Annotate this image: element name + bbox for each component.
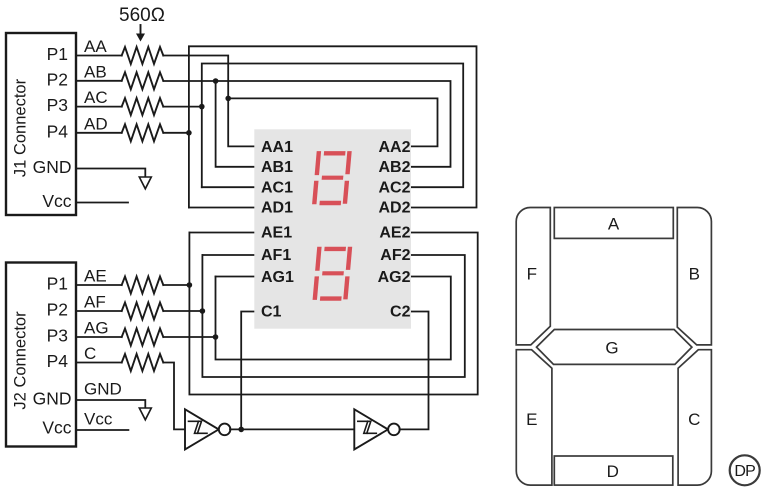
wire J2.P1 stub	[76, 284, 122, 286]
svg-text:GND: GND	[33, 157, 72, 177]
svg-text:P4: P4	[47, 121, 69, 141]
inverter U1 (Schmitt)	[185, 409, 219, 449]
svg-text:P4: P4	[47, 351, 69, 371]
segment F outline	[516, 208, 550, 345]
wire net AE	[163, 284, 189, 286]
wire J2.GND	[76, 400, 145, 408]
svg-text:F: F	[527, 265, 537, 284]
resistor R6 (AF)	[122, 303, 164, 320]
junction net AA	[225, 96, 231, 102]
svg-text:AC: AC	[84, 88, 108, 107]
junction net AC	[199, 104, 205, 110]
wire net C to inverter input	[163, 363, 185, 430]
svg-text:C: C	[688, 410, 700, 429]
wire net AG riser and wrap to AG2	[216, 277, 451, 360]
junction dots	[186, 78, 244, 432]
wire net AF riser and wrap to AF2	[202, 255, 464, 377]
seven segment digit DS1	[312, 151, 352, 205]
svg-text:AG1: AG1	[261, 269, 294, 286]
svg-text:P1: P1	[47, 274, 68, 294]
wire J2.P2 stub	[76, 310, 122, 312]
display module body	[254, 129, 411, 328]
svg-text:P3: P3	[47, 95, 68, 115]
ground symbol J2	[139, 408, 151, 420]
wire J1.P1 stub	[76, 55, 122, 57]
wire J1.P4 stub	[76, 132, 122, 134]
segment A outline	[554, 208, 673, 239]
wire net AB branch to AB1	[216, 81, 255, 167]
svg-text:AE: AE	[84, 267, 107, 286]
wire net AB	[163, 81, 450, 167]
wire J2.Vcc	[76, 429, 128, 431]
svg-text:E: E	[526, 410, 537, 429]
junction net AD	[186, 130, 192, 136]
J1 connector box	[6, 33, 76, 215]
svg-text:J2 Connector: J2 Connector	[12, 311, 30, 410]
svg-text:B: B	[689, 265, 700, 284]
svg-text:GND: GND	[33, 389, 72, 409]
big 7-segment legend	[516, 208, 760, 486]
seven segment digit DS2	[312, 247, 352, 301]
svg-text:AB: AB	[84, 62, 107, 81]
segment G outline	[537, 330, 692, 365]
svg-text:AB2: AB2	[378, 159, 410, 176]
svg-text:AD2: AD2	[378, 200, 410, 217]
wire net AA wrap to AA2	[228, 98, 437, 146]
inverter U2 (Schmitt)	[354, 409, 388, 449]
svg-text:AC2: AC2	[378, 180, 410, 197]
svg-text:C1: C1	[261, 304, 282, 321]
resistor R1 (AA)	[122, 47, 164, 64]
svg-text:DP: DP	[734, 463, 755, 480]
resistor R8 (C)	[122, 354, 164, 371]
wire net AC	[163, 106, 202, 108]
wire net AF stub to AF1	[202, 254, 254, 256]
wire J1.P3 stub	[76, 106, 122, 108]
resistor R4 (AD)	[122, 124, 164, 141]
560 ohm pointer arrow	[140, 25, 142, 34]
svg-text:AA: AA	[84, 37, 107, 56]
svg-text:AA1: AA1	[261, 139, 293, 156]
svg-text:GND: GND	[84, 380, 122, 399]
ground symbol J1	[139, 177, 151, 189]
DP circle	[730, 455, 760, 485]
svg-text:D: D	[607, 462, 619, 481]
svg-text:AG: AG	[84, 319, 109, 338]
wire U2 out to C2	[400, 312, 429, 430]
svg-text:C2: C2	[390, 304, 411, 321]
segment C outline	[678, 350, 711, 485]
junction net AF	[200, 308, 206, 314]
wire J1.Vcc	[76, 202, 128, 204]
wire net AF	[163, 310, 202, 312]
wire J2.P3 stub	[76, 336, 122, 338]
wire net AD riser and wrap to AD2	[189, 46, 477, 207]
wire net AC riser and wrap to AC2	[202, 64, 463, 188]
wire net AD stub to AD1	[189, 207, 255, 209]
segment B outline	[677, 208, 711, 345]
svg-text:AF2: AF2	[380, 247, 410, 264]
junction net AE	[187, 282, 193, 288]
wire net AG stub to AG1	[216, 276, 255, 278]
J2 connector box	[6, 263, 76, 447]
junction net C1	[238, 427, 244, 433]
junction net AB	[213, 78, 219, 84]
svg-text:AB1: AB1	[261, 159, 293, 176]
svg-text:AF1: AF1	[261, 247, 291, 264]
wire J2.P4 stub	[76, 362, 122, 364]
wire net AE riser and wrap to AE2	[189, 233, 477, 395]
svg-text:Vcc: Vcc	[42, 418, 71, 438]
wire net AG	[163, 336, 215, 338]
svg-text:P2: P2	[47, 69, 68, 89]
wire J1.GND	[76, 169, 145, 178]
junction net AG	[213, 334, 219, 340]
svg-text:J1 Connector: J1 Connector	[12, 78, 30, 177]
wire net AA	[163, 56, 254, 147]
wire net AE stub to AE1	[189, 232, 254, 234]
svg-text:AA2: AA2	[378, 139, 410, 156]
svg-text:G: G	[605, 339, 618, 358]
svg-text:A: A	[608, 215, 620, 234]
wire net AD	[163, 132, 189, 134]
segment E outline	[516, 350, 552, 485]
svg-text:Vcc: Vcc	[84, 410, 113, 429]
svg-text:AE2: AE2	[379, 225, 410, 242]
svg-text:P1: P1	[47, 44, 68, 64]
resistor R7 (AG)	[122, 329, 164, 346]
svg-text:AG2: AG2	[378, 269, 411, 286]
svg-text:AD: AD	[84, 114, 108, 133]
resistor R3 (AC)	[122, 98, 164, 115]
resistor R2 (AB)	[122, 72, 164, 89]
svg-text:AC1: AC1	[261, 180, 293, 197]
svg-text:560Ω: 560Ω	[119, 5, 165, 26]
wire J1.P2 stub	[76, 80, 122, 82]
segment D outline	[554, 456, 673, 485]
svg-text:AE1: AE1	[261, 225, 292, 242]
svg-text:AF: AF	[84, 293, 106, 312]
wire U1 out to U2 in	[241, 428, 354, 430]
svg-text:P3: P3	[47, 326, 68, 346]
svg-text:Vcc: Vcc	[42, 191, 71, 211]
wire net AC stub to AC1	[202, 186, 255, 188]
svg-text:C: C	[84, 344, 96, 363]
wire U1 out to C1	[230, 312, 255, 430]
svg-text:P2: P2	[47, 300, 68, 320]
resistor R5 (AE)	[122, 277, 164, 294]
svg-text:AD1: AD1	[261, 200, 293, 217]
